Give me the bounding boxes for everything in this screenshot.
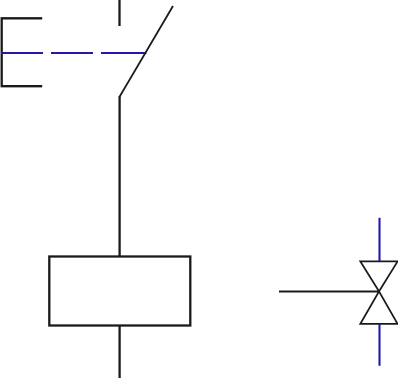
mechanical linkage (blue dashed): [1, 52, 147, 54]
switch top terminal wire: [118, 0, 120, 26]
wire coil bottom: [118, 326, 120, 378]
switch blade S1: [120, 6, 173, 97]
pipe line to valve: [279, 290, 379, 292]
coil K1: [49, 257, 190, 326]
manual actuator bracket: [2, 18, 43, 86]
valve top port (blue): [378, 218, 380, 261]
valve bottom port (blue): [378, 324, 380, 366]
valve V1 body (bowtie): [360, 261, 397, 324]
wire switch to coil: [118, 96, 120, 257]
